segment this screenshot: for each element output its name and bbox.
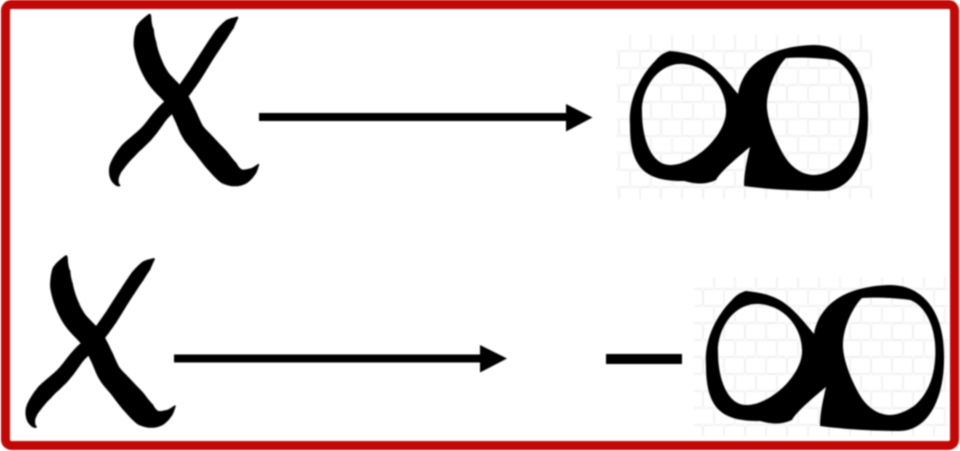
grid background (bottom infinity) <box>694 277 948 436</box>
arrow (bottom row) <box>174 345 507 373</box>
variable x (bottom row) <box>25 255 176 428</box>
minus sign <box>606 354 682 364</box>
infinity symbol (top row) <box>630 45 868 191</box>
grid background (top infinity) <box>616 35 872 199</box>
arrow (top row) <box>259 104 593 132</box>
variable x (top row) <box>109 14 260 187</box>
infinity symbol (bottom row) <box>706 285 944 431</box>
